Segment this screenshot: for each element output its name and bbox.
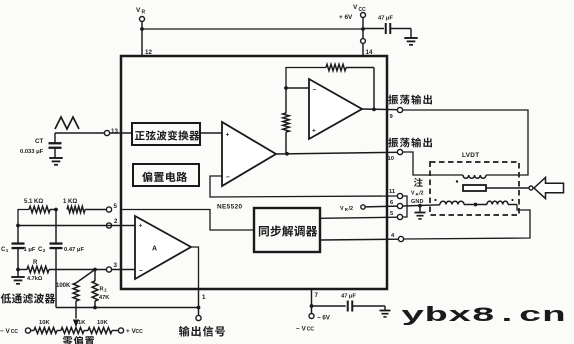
output terminal: [196, 315, 201, 320]
node: pin 7 junction: [310, 304, 314, 308]
svg-text:4: 4: [391, 233, 395, 239]
IC NE5520 main box: [121, 56, 387, 289]
LVDT secondary winding right: [487, 201, 508, 204]
svg-text:μF: μF: [386, 16, 394, 22]
wire: capacitor to ground: [352, 305, 385, 307]
wire: core rod to displacement arrow: [486, 187, 529, 189]
wire: feedback top rail: [286, 68, 326, 89]
svg-text:47: 47: [378, 16, 384, 22]
svg-text:5: 5: [114, 203, 118, 210]
svg-text:1 μF: 1 μF: [24, 247, 36, 253]
pin 11 terminal: [397, 193, 402, 198]
wire: U2 minus input to pin 11 net: [210, 176, 397, 197]
output signal label 输出信号: [179, 326, 190, 337]
wire: demodulator to pin 4: [320, 238, 398, 241]
resistor 100K (offset feedback): [76, 270, 95, 284]
block: sine wave converter 正弦波变换器: [132, 123, 200, 145]
resistor R2 47K: [94, 270, 96, 282]
wire: op-amp A output to pin 1: [191, 247, 199, 289]
svg-text:2: 2: [43, 248, 46, 253]
ground (filter): [17, 270, 19, 278]
pin 10 terminal: [397, 149, 402, 154]
wire: pin 4 to LVDT secondary return: [404, 205, 530, 240]
svg-text:R: R: [100, 287, 104, 293]
resistor 1K: [85, 209, 106, 211]
wire: VR supply rail to VCC node: [142, 28, 363, 30]
displacement block arrow: [534, 178, 564, 199]
wire: feedback down to output: [373, 68, 375, 110]
LVDT core: [463, 185, 486, 191]
svg-text:−: −: [139, 268, 143, 275]
svg-text:CC: CC: [307, 327, 315, 333]
wire: output line: [56, 307, 199, 309]
pin 7 wire down from box: [311, 289, 313, 314]
svg-text:100K: 100K: [56, 283, 71, 289]
svg-text:1K: 1K: [78, 320, 86, 326]
wire: secondary center link: [464, 204, 487, 206]
node: GND junction: [418, 204, 422, 208]
svg-text:LVDT: LVDT: [462, 152, 479, 159]
svg-text:− V: − V: [0, 328, 11, 335]
wiper arrow: [74, 320, 79, 326]
svg-text:− 6V: − 6V: [317, 315, 331, 322]
wire: pin 1 to output terminal: [198, 289, 200, 315]
node: filter junction (5.1K/1K): [54, 208, 58, 212]
oscillator output label 振荡输出 (upper): [388, 95, 398, 105]
pin 6 terminal: [397, 203, 402, 208]
svg-text:9: 9: [390, 114, 394, 120]
wire: pin 5L to demodulator input: [121, 210, 254, 231]
wire: secondary right to return: [508, 204, 517, 206]
svg-text:−: −: [226, 174, 230, 181]
pin 5 terminal (right): [397, 214, 402, 219]
pin 3 terminal: [106, 267, 111, 272]
node: R2/output junction: [93, 306, 97, 310]
svg-text:13: 13: [111, 128, 118, 135]
svg-text:CC: CC: [136, 329, 144, 335]
pin 5L terminal: [106, 207, 111, 212]
resistor 5.1K: [29, 206, 50, 212]
svg-text:10: 10: [388, 156, 394, 162]
pin 9 terminal: [397, 107, 402, 112]
ground (top right): [404, 37, 418, 39]
wire: VR down to pin 12: [141, 29, 143, 56]
svg-text:GND: GND: [411, 199, 424, 205]
pin 2 terminal: [106, 223, 111, 228]
+VCC terminal (pot right): [118, 328, 123, 333]
svg-text:+: +: [139, 223, 143, 230]
wire: sine box to op-amp U2: [200, 132, 222, 134]
svg-text:V: V: [353, 4, 358, 11]
capacitor C2 0.47uF: [55, 210, 57, 244]
svg-text:47: 47: [341, 294, 347, 300]
svg-text:−: −: [313, 87, 317, 94]
svg-text:4.7kΩ: 4.7kΩ: [27, 276, 43, 282]
wire: U1 output to pin 9: [362, 108, 397, 111]
op-amp U1 (oscillator): [309, 79, 362, 139]
node: U1 minus junction: [284, 86, 288, 90]
svg-text:A: A: [152, 246, 157, 253]
resistor 1K (pot middle): [61, 328, 84, 334]
oscillator output label 振荡输出 (lower): [388, 138, 398, 148]
svg-text:R: R: [345, 207, 348, 212]
wire: U2 output to pin 10: [276, 152, 397, 154]
wire: GND net to LVDT secondary left: [403, 205, 440, 206]
wire: capacitor to ground: [390, 28, 411, 30]
wire: CT node to pin 13: [55, 132, 104, 134]
polarity dots secondary: [434, 199, 436, 201]
resistor feedback (top): [326, 64, 346, 70]
ground (LVDT GND): [419, 206, 421, 213]
wire: U1 minus input rail: [286, 87, 309, 89]
svg-text:+: +: [312, 128, 316, 135]
wire: pin 5 jog up to GND net: [403, 206, 407, 217]
svg-text:2: 2: [104, 288, 107, 293]
ground (bottom): [380, 310, 391, 312]
block: synchronous demodulator 同步解调器: [254, 208, 320, 252]
LVDT primary winding: [463, 175, 486, 178]
polarity dot primary: [456, 180, 458, 182]
resistor 10K (pot right): [88, 328, 112, 334]
node: pin2/C1 junction: [16, 224, 20, 228]
node: VR junction: [140, 27, 144, 31]
zero offset label 零偏置: [63, 336, 73, 344]
wire: pin 10 to LVDT primary left: [403, 152, 463, 175]
resistor U2-U1 divider (vertical): [285, 88, 287, 113]
svg-text:0.033 μF: 0.033 μF: [20, 149, 44, 155]
svg-text:CT: CT: [35, 138, 43, 145]
svg-text:V: V: [411, 191, 415, 197]
wire: demodulator to pin 5 (right): [320, 217, 397, 218]
wire: pin 3 into op-amp A minus input: [112, 269, 135, 271]
node: pin 3 feedback junction: [93, 268, 97, 272]
wire: 5.1K left down to C1 branch: [18, 210, 29, 226]
svg-text:1: 1: [6, 248, 9, 253]
svg-text:10K: 10K: [97, 320, 108, 326]
svg-text:R: R: [142, 10, 146, 16]
op-amp U2 (sine buffer): [222, 122, 276, 186]
svg-text:V: V: [340, 206, 344, 212]
svg-text:R: R: [416, 192, 419, 197]
LVDT dashed enclosure: [430, 162, 519, 215]
svg-text:7: 7: [315, 292, 319, 299]
svg-text:μF: μF: [349, 294, 357, 300]
pin 13 terminal: [104, 130, 109, 135]
block: bias circuit 偏置电路: [133, 164, 199, 186]
svg-text:1 KΩ: 1 KΩ: [63, 199, 77, 205]
wire: VR/2 to pin 6: [365, 205, 397, 208]
node: U2 output / R divider junction: [285, 152, 289, 156]
svg-text:0.47 μF: 0.47 μF: [64, 247, 84, 253]
node: ground junction (R/C1): [16, 268, 20, 272]
ground (CT): [49, 157, 63, 159]
svg-text:10K: 10K: [39, 320, 50, 326]
capacitor C1 1uF: [17, 226, 19, 244]
svg-text:11: 11: [389, 189, 396, 195]
capacitor CT 0.033uF: [54, 133, 56, 143]
svg-text:+: +: [226, 132, 230, 139]
svg-text:NE5520: NE5520: [217, 204, 243, 211]
svg-text:ybx8.cn: ybx8.cn: [401, 305, 566, 327]
resistor 10K (pot left): [34, 328, 57, 334]
wire: pin 2 to C1 branch: [106, 225, 121, 227]
svg-text:/2: /2: [349, 206, 354, 212]
triangle-wave symbol: [55, 117, 79, 129]
LVDT secondary winding left: [440, 201, 464, 204]
wire: VCC junction down to pin 14: [362, 29, 364, 39]
svg-text:47K: 47K: [99, 295, 109, 301]
note 注 and VR/2 GND labels: [414, 178, 423, 187]
svg-text:5: 5: [390, 211, 394, 217]
svg-text:+ 6V: + 6V: [339, 14, 353, 21]
svg-text:V: V: [136, 7, 141, 14]
low pass filter label 低通滤波器: [1, 293, 11, 303]
svg-text:− V: − V: [296, 326, 307, 333]
svg-text:5.1 KΩ: 5.1 KΩ: [24, 199, 43, 205]
svg-text:/2: /2: [419, 191, 423, 197]
op-amp A (output amplifier): [135, 216, 191, 279]
terminal -6V: [309, 314, 314, 319]
wire: pin 7 junction to capacitor: [312, 305, 346, 307]
svg-text:CC: CC: [11, 329, 19, 335]
svg-text:1: 1: [202, 294, 206, 301]
svg-text:3: 3: [114, 262, 118, 269]
svg-text:6: 6: [390, 200, 394, 206]
node: VCC junction: [361, 27, 365, 31]
wire: pin 2 into op-amp A plus input: [121, 225, 135, 227]
wire: pin 9 to LVDT primary right: [403, 110, 528, 175]
wire: VCC junction to capacitor: [363, 28, 384, 30]
pin 4 terminal: [398, 236, 403, 241]
node: secondary center tap: [474, 203, 478, 207]
wire: pin 11 jog down to GND net: [403, 196, 407, 206]
node: pin1/output junction: [197, 306, 201, 310]
svg-text:2: 2: [114, 218, 118, 225]
node: U1 output junction: [372, 108, 376, 112]
